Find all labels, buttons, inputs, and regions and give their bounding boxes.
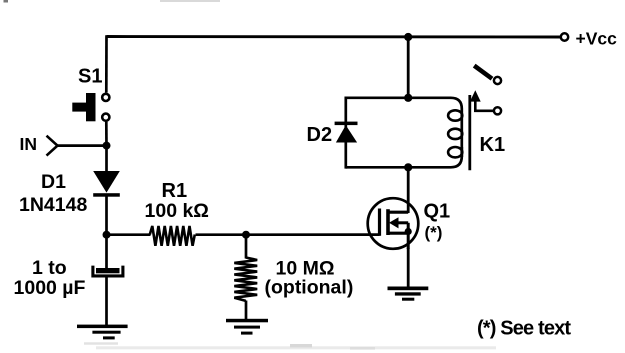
svg-text:D1: D1 — [41, 171, 66, 193]
Q1 drain arm — [388, 211, 408, 214]
svg-text:1N4148: 1N4148 — [19, 194, 87, 216]
wire D1 to node B — [105, 197, 108, 237]
Q1 source arm — [388, 232, 408, 235]
node dot on Vcc rail — [404, 33, 412, 41]
wire node C to Q1 gate — [246, 233, 380, 236]
MOSFET Q1 body circle — [368, 198, 419, 249]
scan artifact top-left mark — [4, 0, 9, 3]
node B junction dot — [103, 231, 111, 239]
switch S1 pushbutton actuator — [72, 93, 95, 121]
svg-text:Q1: Q1 — [424, 200, 451, 222]
svg-text:(*): (*) — [425, 223, 443, 242]
Q1 internal source vertical — [407, 223, 410, 249]
Q1 substrate arrow — [389, 217, 399, 228]
wire C1 to ground — [105, 277, 108, 326]
wire node B to R1 — [107, 233, 151, 236]
relay K1 core bar — [468, 95, 471, 170]
relay K1 coil turn 1 — [448, 110, 462, 120]
svg-text:D2: D2 — [307, 124, 333, 146]
node dot relay top — [404, 94, 412, 102]
resistor 10 Mohm zigzag — [234, 258, 257, 301]
relay K1 coil turn 3 — [448, 147, 462, 157]
ground (below C1) — [77, 325, 128, 340]
wire 10M to ground — [245, 301, 248, 320]
node dot relay bottom — [404, 163, 412, 171]
wire R1 to node C — [196, 233, 247, 236]
scan artifact bottom streak — [96, 346, 496, 349]
svg-text:(*) See text: (*) See text — [477, 318, 571, 340]
wire rail down to S1 — [105, 35, 108, 92]
Q1 gate plate — [378, 209, 381, 236]
wire node A to D1 — [105, 146, 108, 172]
relay contact circle 2 — [494, 107, 501, 114]
ground (below Q1) — [388, 287, 429, 301]
capacitor C1 bottom bracket plate — [93, 266, 123, 276]
relay actuation arrow head — [470, 90, 481, 101]
relay contact circle 1 — [494, 77, 501, 84]
svg-text:1 to: 1 to — [32, 257, 67, 279]
input IN terminal chevron — [47, 136, 58, 156]
Q1 body arm with arrow — [395, 221, 408, 224]
relay K1 coil loop: bottom wire with corner — [346, 147, 462, 167]
ground (below 10M resistor) — [226, 319, 268, 335]
svg-text:IN: IN — [20, 134, 38, 154]
diode D2 cathode bar — [335, 122, 358, 126]
switch S1 bottom terminal — [102, 114, 109, 121]
wire S1 to node A — [105, 122, 108, 148]
wire IN to node A — [58, 144, 107, 147]
wire Q1 source to ground — [407, 248, 410, 288]
relay actuation wire — [475, 101, 494, 111]
wire top +Vcc rail — [107, 35, 562, 38]
svg-text:1000 µF: 1000 µF — [14, 277, 86, 299]
diode D1 — [93, 171, 120, 197]
wire node B to capacitor C1 — [105, 235, 108, 269]
Q1 source junction dot — [405, 228, 412, 235]
relay contact lever — [474, 66, 492, 79]
switch S1 top terminal — [102, 94, 109, 101]
svg-text:+Vcc: +Vcc — [576, 29, 618, 49]
wire node C down to 10M resistor — [245, 235, 248, 259]
wire relay loop left vertical — [344, 97, 347, 169]
svg-text:100 kΩ: 100 kΩ — [145, 200, 209, 222]
svg-text:R1: R1 — [162, 180, 188, 202]
Q1 channel spine — [386, 209, 390, 235]
node C junction dot — [242, 231, 250, 239]
wire relay bottom to Q1 drain — [407, 167, 410, 213]
wire rail to relay top — [407, 37, 410, 98]
relay K1 coil turn 2 — [448, 129, 462, 139]
svg-text:K1: K1 — [480, 134, 506, 156]
svg-text:(optional): (optional) — [265, 277, 354, 299]
svg-text:S1: S1 — [78, 66, 102, 88]
capacitor C1 top plate — [96, 268, 120, 273]
relay K1 coil loop: top wire with corner — [346, 98, 462, 157]
resistor R1 zigzag — [150, 226, 195, 246]
terminal +Vcc open circle — [561, 33, 568, 40]
node A junction dot — [103, 142, 111, 150]
diode D2 triangle — [336, 125, 357, 142]
